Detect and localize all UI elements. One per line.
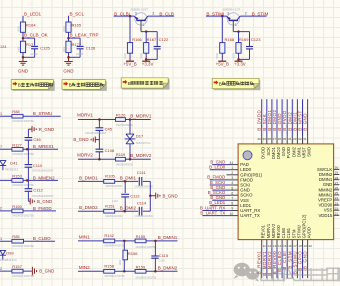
- svg-text:22: 22: [335, 206, 339, 210]
- svg-text:B_GND: B_GND: [303, 113, 308, 131]
- svg-text:0603WAF4700T5E: 0603WAF4700T5E: [104, 275, 125, 278]
- svg-text:R_GND: R_GND: [39, 127, 54, 132]
- svg-text:R156: R156: [128, 251, 138, 256]
- svg-text:GND: GND: [18, 69, 29, 74]
- svg-text:37: 37: [273, 137, 277, 141]
- svg-text:0402WGF0000: 0402WGF0000: [105, 185, 123, 188]
- svg-text:R105: R105: [105, 174, 115, 179]
- svg-text:B_GND: B_GND: [37, 199, 52, 204]
- svg-text:P6SMBJ6.5: P6SMBJ6.5: [5, 168, 19, 171]
- svg-text:+5V_B: +5V_B: [216, 62, 229, 67]
- svg-text:35: 35: [283, 137, 287, 141]
- svg-text:B: B: [69, 83, 72, 88]
- svg-text:C104: C104: [159, 260, 165, 263]
- svg-text:0402WGF1002T5E: 0402WGF1002T5E: [12, 245, 34, 248]
- svg-text:0402WGF1002T5E: 0402WGF1002T5E: [12, 275, 34, 278]
- svg-text:C114: C114: [137, 200, 147, 205]
- svg-text:C0402B104K500NT: C0402B104K500NT: [32, 195, 54, 198]
- svg-text:C112: C112: [33, 188, 43, 193]
- svg-text:0402WGF1002T5E: 0402WGF1002T5E: [12, 184, 34, 187]
- svg-text:R166: R166: [132, 37, 142, 42]
- svg-text:C0402B104K500NT: C0402B104K500NT: [32, 170, 54, 173]
- svg-text:AVDD: AVDD: [307, 227, 312, 238]
- svg-text:MDRV2: MDRV2: [77, 152, 93, 157]
- svg-text:D99: D99: [6, 250, 14, 255]
- svg-text:C45: C45: [105, 127, 113, 132]
- svg-text:26: 26: [335, 186, 339, 190]
- svg-text:B_UART_TX: B_UART_TX: [200, 210, 225, 215]
- svg-text:R158: R158: [104, 263, 114, 268]
- svg-text:0402WGF0000: 0402WGF0000: [116, 164, 134, 167]
- svg-text:R127: R127: [12, 142, 22, 147]
- svg-text:B: B: [128, 81, 131, 86]
- svg-text:C108: C108: [105, 148, 115, 153]
- svg-text:R165: R165: [72, 23, 82, 28]
- svg-text:B_DMO2: B_DMO2: [79, 205, 98, 210]
- svg-text:124: 124: [0, 45, 6, 49]
- svg-text:C46: C46: [33, 137, 41, 142]
- svg-text:1002: 1002: [62, 46, 66, 52]
- svg-text:0402WGF1002T5E: 0402WGF1002T5E: [12, 153, 34, 156]
- svg-text:R126: R126: [116, 112, 126, 117]
- svg-text:B_LEAK_TRP: B_LEAK_TRP: [70, 33, 99, 38]
- svg-text:C0402: C0402: [30, 53, 38, 56]
- svg-text:VDD15: VDD15: [318, 213, 332, 218]
- svg-text:SS8550-Y1/2T: SS8550-Y1/2T: [223, 8, 241, 12]
- svg-text:25: 25: [335, 191, 339, 195]
- svg-text:27: 27: [335, 181, 339, 185]
- svg-text:B_LED0: B_LED0: [209, 165, 226, 170]
- svg-text:C126: C126: [86, 45, 96, 50]
- svg-text:R159: R159: [136, 264, 146, 269]
- svg-text:0402WGF1002T5E: 0402WGF1002T5E: [136, 246, 157, 249]
- svg-text:12: 12: [268, 244, 272, 248]
- svg-text:MIN1: MIN1: [79, 235, 90, 240]
- svg-text:18: 18: [298, 244, 302, 248]
- svg-text:B_DMI1: B_DMI1: [120, 176, 137, 181]
- svg-text:1002: 1002: [118, 259, 122, 265]
- svg-text:0402WGF1002T5E: 0402WGF1002T5E: [136, 277, 157, 280]
- svg-text:C122: C122: [159, 37, 169, 42]
- svg-text:6: 6: [231, 191, 233, 195]
- svg-text:R142: R142: [104, 233, 114, 238]
- svg-text:C115: C115: [159, 253, 169, 258]
- svg-text:B_DMIN1: B_DMIN1: [158, 235, 178, 240]
- svg-text:20: 20: [309, 244, 313, 248]
- svg-text:B_CLBO: B_CLBO: [33, 236, 51, 241]
- svg-text:29: 29: [335, 171, 339, 175]
- svg-text:R119: R119: [116, 152, 126, 157]
- svg-text:1002: 1002: [231, 52, 235, 58]
- svg-text:B_GND: B_GND: [73, 137, 88, 142]
- svg-text:5: 5: [231, 186, 233, 190]
- svg-text:B_GND: B_GND: [303, 251, 308, 269]
- svg-text:R153: R153: [12, 173, 22, 178]
- svg-text:2: 2: [231, 171, 233, 175]
- svg-text:23: 23: [335, 201, 339, 205]
- svg-text:C110: C110: [33, 163, 43, 168]
- svg-text:24: 24: [335, 196, 339, 200]
- svg-text:SWD: SWD: [307, 147, 312, 157]
- svg-text:1002: 1002: [16, 25, 20, 31]
- svg-text:1002: 1002: [215, 52, 219, 58]
- svg-text:11: 11: [263, 244, 266, 248]
- svg-text:B_MDRV1: B_MDRV1: [130, 113, 152, 118]
- svg-text:10: 10: [230, 212, 234, 216]
- svg-text:C111: C111: [137, 170, 147, 175]
- svg-text:B: B: [18, 83, 21, 88]
- svg-text:B_STIMU: B_STIMU: [33, 111, 53, 116]
- svg-text:C104: C104: [112, 200, 118, 203]
- svg-text:R88: R88: [12, 109, 20, 114]
- svg-text:R168: R168: [225, 37, 235, 42]
- svg-text:1002: 1002: [123, 52, 127, 58]
- svg-text:B_MMEN2: B_MMEN2: [33, 175, 55, 180]
- svg-text:9: 9: [231, 207, 233, 211]
- svg-text:40: 40: [257, 137, 261, 141]
- svg-text:B_MRES1: B_MRES1: [33, 144, 55, 149]
- svg-text:P6SMBJ6.5CA: P6SMBJ6.5CA: [0, 259, 17, 262]
- svg-text:B_DMO1: B_DMO1: [79, 175, 98, 180]
- svg-text:1002: 1002: [16, 46, 20, 52]
- svg-text:C123: C123: [251, 37, 261, 42]
- svg-text:2: 2: [152, 11, 154, 15]
- svg-text:C0402: C0402: [76, 53, 84, 56]
- svg-text:19: 19: [304, 244, 308, 248]
- svg-text:B_SCL: B_SCL: [70, 11, 85, 16]
- svg-text:R164: R164: [26, 23, 36, 28]
- svg-text:GND: GND: [63, 69, 74, 74]
- svg-text:B_GND: B_GND: [39, 269, 54, 274]
- svg-text:C113: C113: [130, 193, 140, 198]
- svg-text:8: 8: [231, 202, 233, 206]
- svg-text:R157: R157: [12, 264, 22, 269]
- svg-text:7: 7: [0, 145, 2, 149]
- svg-text:+3.3V: +3.3V: [234, 62, 246, 67]
- svg-text:0402WGF1002T5E: 0402WGF1002T5E: [12, 215, 34, 218]
- svg-text:R167: R167: [147, 37, 157, 42]
- svg-text:MDRV1: MDRV1: [77, 113, 93, 118]
- svg-text:SMF05CT1G: SMF05CT1G: [136, 142, 151, 145]
- svg-text:0402WGF1002T5E: 0402WGF1002T5E: [12, 120, 34, 123]
- svg-text:4: 4: [231, 181, 233, 185]
- svg-text:R150: R150: [12, 204, 22, 209]
- svg-text:3: 3: [231, 176, 233, 180]
- svg-text:0603WAF4700T5E: 0603WAF4700T5E: [104, 244, 125, 247]
- svg-text:17: 17: [293, 244, 297, 248]
- svg-text:C0402B104K500NT: C0402B104K500NT: [85, 132, 107, 135]
- svg-text:38: 38: [268, 137, 272, 141]
- svg-text:2: 2: [245, 11, 247, 15]
- svg-text:41: 41: [230, 161, 234, 165]
- svg-text:B: B: [219, 81, 222, 86]
- svg-text:MIN2: MIN2: [79, 265, 90, 270]
- svg-text:2: 2: [0, 207, 2, 211]
- svg-text:UART_TX: UART_TX: [240, 213, 260, 218]
- svg-text:R155: R155: [136, 234, 146, 239]
- svg-text:B_DMI2: B_DMI2: [120, 205, 137, 210]
- svg-text:SS8550-Y1/2T: SS8550-Y1/2T: [130, 8, 148, 12]
- svg-text:31: 31: [303, 137, 307, 141]
- svg-text:2: 2: [0, 267, 2, 271]
- svg-text:1: 1: [0, 112, 2, 116]
- svg-text:D17: D17: [136, 134, 144, 139]
- svg-text:1002: 1002: [62, 25, 66, 31]
- svg-text:14: 14: [278, 244, 282, 248]
- svg-text:0402WGF0000: 0402WGF0000: [116, 124, 134, 127]
- svg-text:1002: 1002: [139, 52, 143, 58]
- svg-text:36: 36: [278, 137, 282, 141]
- svg-text:7: 7: [231, 197, 233, 201]
- svg-text:32: 32: [298, 137, 302, 141]
- svg-text:B_CLB_OK: B_CLB_OK: [24, 33, 49, 38]
- svg-text:13: 13: [273, 244, 277, 248]
- svg-text:0402WGF0000: 0402WGF0000: [105, 215, 123, 218]
- svg-text:B_MDRV2: B_MDRV2: [130, 153, 152, 158]
- svg-text:C125: C125: [40, 45, 50, 50]
- svg-text:28: 28: [335, 176, 339, 180]
- svg-text:R151: R151: [105, 203, 115, 208]
- svg-text:C0402B104K500: C0402B104K500: [135, 215, 154, 218]
- svg-text:+3.3V: +3.3V: [142, 62, 154, 67]
- svg-text:+5V_B: +5V_B: [123, 62, 136, 67]
- svg-text:B_LED1: B_LED1: [24, 11, 42, 16]
- svg-text:B_GND: B_GND: [163, 193, 178, 198]
- svg-text:R169: R169: [239, 37, 249, 42]
- svg-text:1: 1: [0, 237, 2, 241]
- svg-text:39: 39: [262, 137, 266, 141]
- svg-text:21: 21: [335, 212, 339, 216]
- svg-text:R85: R85: [12, 234, 20, 239]
- svg-text:B_FMOD: B_FMOD: [33, 206, 53, 211]
- svg-text:33: 33: [293, 137, 297, 141]
- svg-text:34: 34: [288, 137, 292, 141]
- svg-text:B_DMIN2: B_DMIN2: [158, 266, 178, 271]
- svg-text:30: 30: [335, 166, 339, 170]
- svg-text:D41: D41: [10, 161, 18, 166]
- svg-text:1: 1: [231, 166, 233, 170]
- svg-text:16: 16: [288, 244, 292, 248]
- svg-text:15: 15: [283, 244, 287, 248]
